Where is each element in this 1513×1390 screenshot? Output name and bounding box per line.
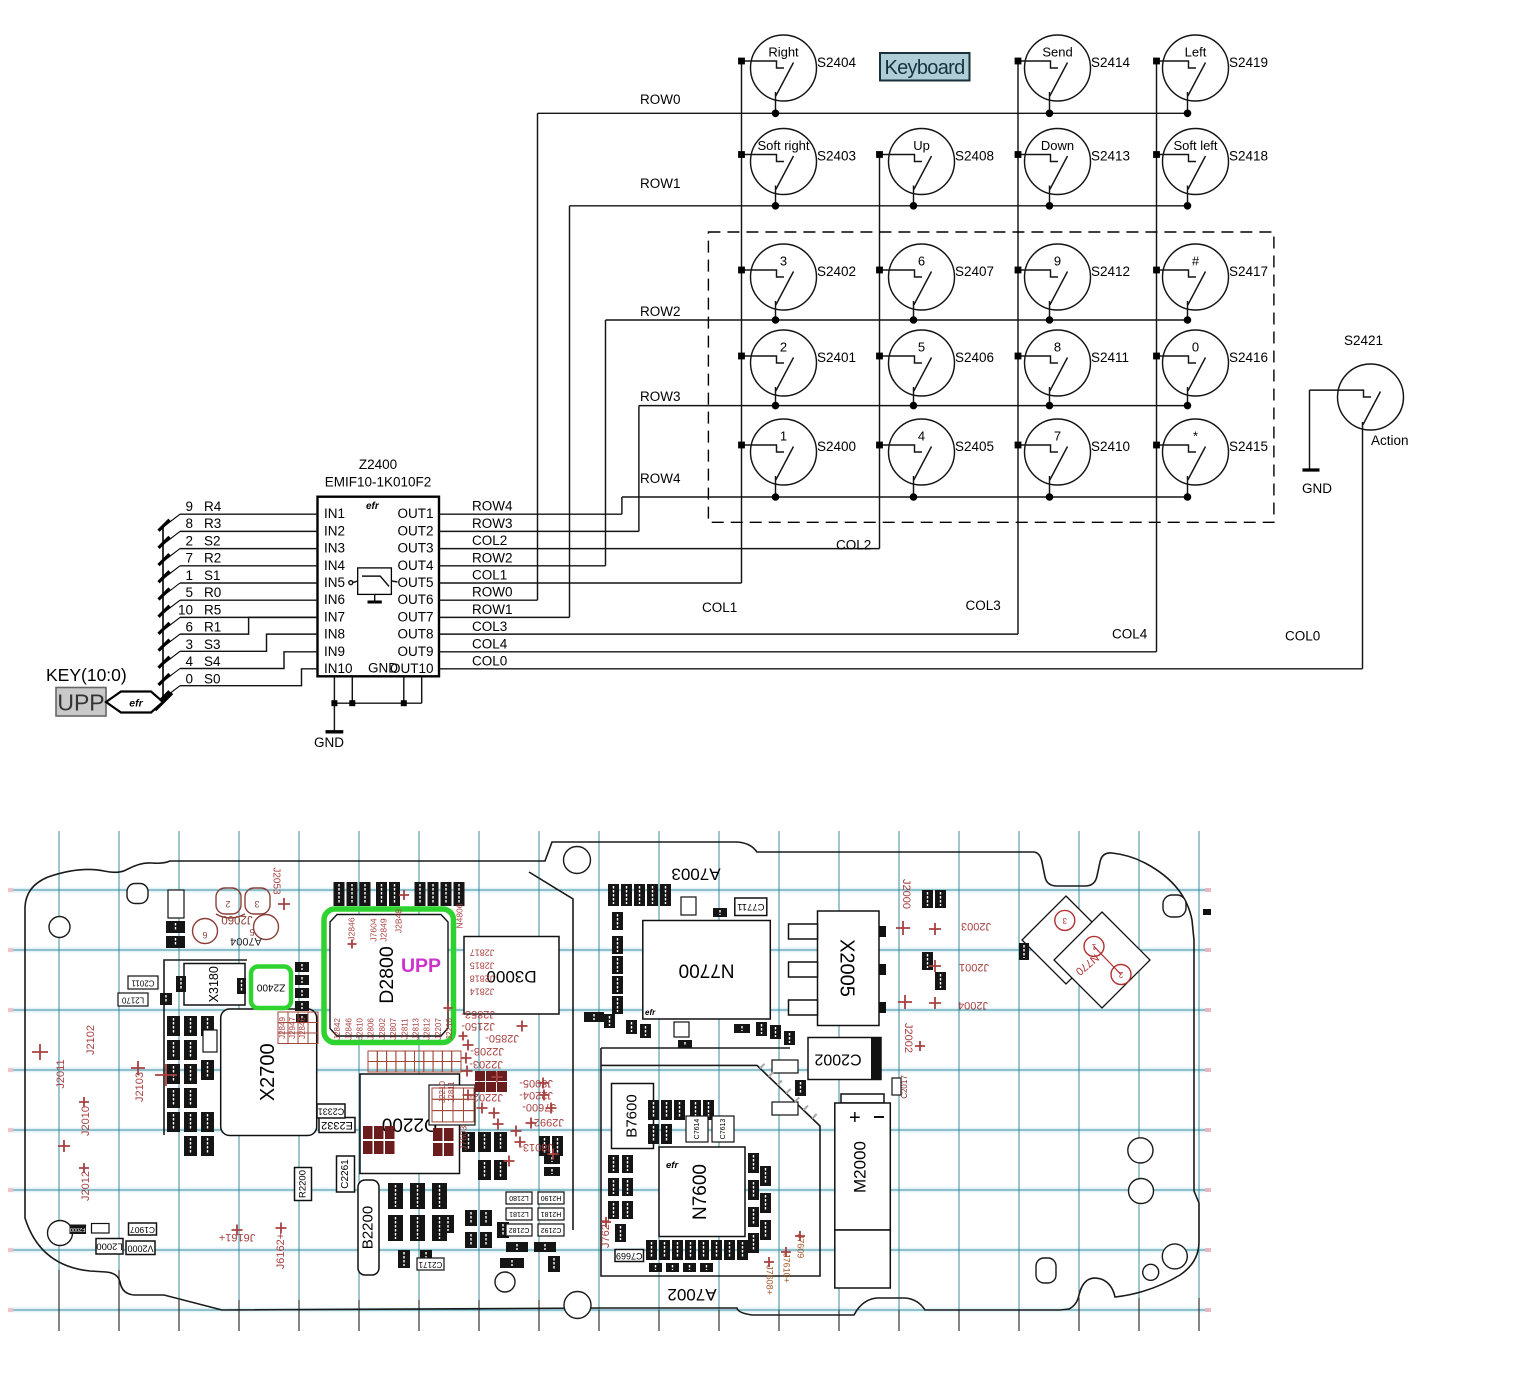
- svg-text:COL2: COL2: [836, 538, 871, 553]
- svg-text:A7003: A7003: [671, 865, 720, 884]
- svg-text:S2407: S2407: [955, 264, 994, 279]
- component B2200: [358, 1180, 379, 1275]
- component C2261: [337, 1156, 355, 1192]
- key switch S2400 (1): [738, 419, 856, 501]
- svg-text:2: 2: [1118, 970, 1123, 979]
- svg-text:1: 1: [780, 429, 787, 444]
- svg-text:J2010: J2010: [80, 1106, 92, 1136]
- wire R4 to IN1: [180, 513, 318, 515]
- svg-text:IN7: IN7: [324, 609, 345, 624]
- component D2800 with green highlight box: [324, 909, 454, 1043]
- svg-text:J6162+: J6162+: [275, 1233, 287, 1269]
- pcb internal boundary near D3000: [529, 872, 573, 1230]
- svg-text:efr: efr: [666, 1160, 679, 1171]
- wire OUT10 to COL0: [439, 668, 1363, 670]
- IC Z2400 EMIF10-1K010F2: [318, 457, 440, 676]
- wire R2 to IN4: [180, 565, 318, 567]
- svg-text:S2402: S2402: [817, 264, 856, 279]
- svg-text:J2842: J2842: [333, 1018, 342, 1040]
- wire S2 to IN3: [180, 548, 318, 550]
- svg-text:J2846: J2846: [298, 1017, 307, 1039]
- rounded hole bottom-right area: [1036, 1258, 1056, 1283]
- key switch S2412 (9): [1015, 244, 1130, 324]
- svg-text:S2401: S2401: [817, 350, 856, 365]
- key switch S2404 (Right): [738, 35, 856, 117]
- component C7669: [615, 1250, 644, 1262]
- wire OUT3 to COL2: [439, 548, 880, 550]
- wire R5 to IN7: [180, 616, 318, 618]
- svg-text:J2814: J2814: [470, 987, 495, 997]
- svg-text:1: 1: [185, 568, 193, 583]
- wire ROW1 vertical riser: [569, 206, 571, 618]
- component D2200: [360, 1074, 460, 1174]
- wire ROW4 horizontal: [622, 496, 1188, 498]
- svg-text:4: 4: [918, 429, 925, 444]
- wire from Action to GND: [1309, 390, 1311, 469]
- svg-text:ROW3: ROW3: [472, 516, 513, 531]
- svg-text:J2811: J2811: [400, 1018, 409, 1040]
- svg-text:N7700: N7700: [679, 960, 735, 981]
- svg-text:J2103: J2103: [134, 1072, 146, 1102]
- svg-text:COL0: COL0: [472, 654, 507, 669]
- svg-text:S2410: S2410: [1091, 439, 1130, 454]
- svg-text:IN6: IN6: [324, 592, 345, 607]
- wire R3 to IN2: [180, 530, 318, 532]
- svg-text:OUT1: OUT1: [397, 506, 433, 521]
- svg-text:M2000: M2000: [850, 1141, 869, 1193]
- svg-text:J2208-: J2208-: [470, 1045, 504, 1057]
- svg-text:GND: GND: [314, 735, 344, 750]
- svg-text:S2403: S2403: [817, 149, 856, 164]
- component cluster right of Z2400: [295, 962, 309, 1023]
- svg-text:9: 9: [1054, 254, 1061, 269]
- wire COL2 vertical: [879, 155, 881, 549]
- svg-text:J7603: J7603: [458, 1126, 468, 1151]
- svg-text:3: 3: [780, 254, 787, 269]
- svg-text:S2417: S2417: [1229, 264, 1268, 279]
- key switch S2421 (Action): [1310, 333, 1409, 448]
- svg-text:J2811: J2811: [447, 1081, 456, 1103]
- key switch S2403 (Soft right): [738, 129, 856, 210]
- svg-text:N4806: N4806: [454, 903, 464, 928]
- svg-text:C2011: C2011: [131, 978, 155, 987]
- svg-text:J2004: J2004: [958, 999, 988, 1011]
- component column left of N7700: [604, 884, 671, 1038]
- component E2332: [319, 1118, 355, 1133]
- svg-text:6: 6: [202, 930, 207, 940]
- svg-text:C2171: C2171: [418, 1260, 442, 1269]
- key switch S2413 (Down): [1015, 129, 1130, 210]
- svg-text:J2813: J2813: [412, 1018, 421, 1040]
- svg-text:6: 6: [185, 620, 193, 635]
- wire OUT8 to COL3: [439, 633, 1018, 635]
- svg-text:S2416: S2416: [1229, 350, 1268, 365]
- svg-text:J2150-: J2150-: [461, 1020, 495, 1032]
- key switch S2414 (Send): [1015, 35, 1131, 117]
- bus ripper tick 1: [163, 531, 180, 544]
- svg-text:COL1: COL1: [702, 600, 737, 615]
- svg-text:R5: R5: [204, 602, 221, 617]
- svg-text:J2060: J2060: [221, 913, 252, 925]
- svg-text:EMIF10-1K010F2: EMIF10-1K010F2: [325, 475, 432, 490]
- svg-text:COL4: COL4: [472, 636, 508, 651]
- svg-text:J2850-: J2850-: [485, 1032, 519, 1044]
- bus ripper tick 0: [163, 514, 180, 527]
- svg-text:8: 8: [185, 516, 193, 531]
- component cluster left of X2700: [167, 1016, 217, 1156]
- component C2002: [808, 1038, 881, 1080]
- wire ROW1 horizontal: [570, 205, 1188, 207]
- svg-text:J2992-: J2992-: [530, 1116, 564, 1128]
- svg-text:9: 9: [185, 499, 193, 514]
- svg-text:J2818: J2818: [470, 974, 495, 984]
- svg-text:OUT9: OUT9: [397, 644, 433, 659]
- bus ripper tick 7: [163, 634, 180, 647]
- red via lattice D7603: [429, 1085, 475, 1125]
- svg-text:B7600: B7600: [623, 1094, 640, 1137]
- svg-text:J2817: J2817: [470, 948, 495, 958]
- svg-text:J2000: J2000: [900, 879, 912, 909]
- svg-text:COL1: COL1: [472, 568, 507, 583]
- svg-text:GND: GND: [368, 661, 398, 676]
- wire OUT6 to ROW0: [439, 599, 538, 601]
- svg-text:Z2400: Z2400: [256, 981, 285, 992]
- svg-text:Send: Send: [1042, 45, 1072, 60]
- wire R1 to IN8 (jogged): [180, 617, 318, 634]
- svg-text:UPP: UPP: [401, 955, 441, 977]
- svg-text:ROW1: ROW1: [472, 602, 513, 617]
- svg-text:OUT7: OUT7: [397, 609, 433, 624]
- svg-text:S3: S3: [204, 637, 221, 652]
- svg-text:J7604: J7604: [368, 918, 378, 941]
- ground net below Z2400: [314, 676, 422, 750]
- components right of X2005: [892, 890, 1029, 1095]
- key switch S2410 (7): [1015, 419, 1130, 501]
- component L2000: [96, 1239, 123, 1255]
- svg-text:3: 3: [254, 899, 259, 909]
- svg-text:R4: R4: [204, 499, 222, 514]
- components near X3180: [118, 976, 246, 1006]
- ground symbol at Action: [1302, 470, 1332, 496]
- svg-text:ROW0: ROW0: [640, 92, 681, 107]
- svg-text:J2207: J2207: [434, 1018, 443, 1040]
- svg-text:S2415: S2415: [1229, 439, 1268, 454]
- hole right 2: [1129, 1179, 1154, 1204]
- key switch S2405 (4): [876, 419, 994, 501]
- svg-text:COL0: COL0: [1285, 629, 1320, 644]
- svg-text:C2192: C2192: [541, 1226, 562, 1233]
- component X3180: [184, 964, 245, 1006]
- svg-text:S2408: S2408: [955, 149, 994, 164]
- svg-text:IN2: IN2: [324, 523, 345, 538]
- component cluster mid keypad: [417, 1132, 560, 1272]
- svg-text:J2849: J2849: [378, 918, 388, 941]
- component V2000: [126, 1241, 155, 1255]
- svg-text:S2413: S2413: [1091, 149, 1130, 164]
- svg-text:ROW1: ROW1: [640, 176, 681, 191]
- svg-text:IN8: IN8: [324, 627, 345, 642]
- wire ROW0 horizontal: [538, 112, 1188, 114]
- svg-text:*: *: [1193, 429, 1198, 444]
- svg-text:0: 0: [1192, 340, 1199, 355]
- svg-text:J2812: J2812: [423, 1018, 432, 1040]
- component X2700: [221, 1009, 317, 1136]
- components below N7700: [584, 897, 750, 1048]
- svg-text:J2846: J2846: [346, 917, 356, 940]
- wire S1 to IN5: [180, 582, 318, 584]
- red via lattice right of X2700: [278, 1012, 318, 1044]
- svg-text:efr: efr: [129, 698, 143, 710]
- key switch S2408 (Up): [876, 129, 994, 210]
- key switch S2407 (6): [876, 244, 994, 324]
- wire OUT1 to ROW4: [439, 513, 622, 515]
- component C2331: [317, 1104, 345, 1118]
- component M2000 battery: [835, 1094, 891, 1288]
- component cluster below D2200 / right of B2200: [388, 1183, 454, 1268]
- svg-text:IN5: IN5: [324, 575, 345, 590]
- svg-text:IN9: IN9: [324, 644, 345, 659]
- svg-text:S2421: S2421: [1344, 333, 1383, 348]
- svg-text:S2414: S2414: [1091, 55, 1131, 70]
- component C1907: [129, 1223, 157, 1235]
- hole right 1: [1128, 1138, 1153, 1163]
- svg-text:OUT4: OUT4: [397, 558, 433, 573]
- rounded hole top-left: [127, 884, 148, 904]
- svg-text:S2405: S2405: [955, 439, 994, 454]
- wire COL3 vertical: [1017, 61, 1019, 634]
- wire S0 to IN11 (jogged): [180, 669, 318, 686]
- svg-text:J2846: J2846: [344, 1018, 353, 1040]
- svg-text:V2000: V2000: [127, 1243, 153, 1253]
- small inductor components L2180/H2190: [506, 1192, 564, 1252]
- wire S3 to IN9 (jogged): [180, 634, 318, 651]
- component N7700: [643, 921, 771, 1020]
- svg-text:L2000: L2000: [96, 1241, 122, 1252]
- svg-text:Up: Up: [913, 138, 930, 153]
- wire COL1 vertical: [741, 61, 743, 583]
- component X2005: [789, 911, 887, 1026]
- mounting hole: [49, 917, 70, 938]
- svg-text:S1: S1: [204, 568, 221, 583]
- svg-text:ROW4: ROW4: [640, 471, 681, 486]
- svg-text:Soft right: Soft right: [757, 138, 809, 153]
- pcb board outline: [25, 842, 1199, 1315]
- hole bottom mid 2: [564, 1292, 591, 1319]
- wire COL0 vertical from Action: [1362, 422, 1364, 669]
- svg-text:ROW2: ROW2: [472, 550, 513, 565]
- key switch S2401 (2): [738, 330, 856, 409]
- svg-text:10: 10: [178, 602, 193, 617]
- svg-text:IN1: IN1: [324, 506, 345, 521]
- svg-text:J2003: J2003: [961, 920, 991, 932]
- svg-text:D2800: D2800: [376, 946, 398, 1004]
- svg-text:X3180: X3180: [207, 966, 221, 1002]
- wire ROW3 vertical riser: [638, 406, 640, 532]
- svg-text:#: #: [1192, 254, 1200, 269]
- wire OUT4 to ROW2: [439, 565, 606, 567]
- svg-text:C7614: C7614: [694, 1119, 701, 1140]
- wire OUT5 to COL1: [439, 582, 742, 584]
- svg-text:C7711: C7711: [737, 901, 764, 912]
- svg-text:ROW4: ROW4: [472, 499, 513, 514]
- component cluster far left top: [166, 890, 185, 948]
- svg-text:J2B48: J2B48: [393, 909, 403, 933]
- svg-text:OUT6: OUT6: [397, 592, 433, 607]
- svg-text:R2200: R2200: [298, 1170, 309, 1198]
- highlight box Z2400 (green): [251, 967, 291, 1009]
- component cluster above D2800: [334, 882, 465, 906]
- key switch S2419 (Left): [1153, 35, 1268, 117]
- svg-text:B2200: B2200: [359, 1206, 376, 1249]
- svg-text:ROW2: ROW2: [640, 304, 681, 319]
- svg-text:J7610+: J7610+: [782, 1253, 792, 1283]
- svg-text:S2419: S2419: [1229, 55, 1268, 70]
- wire ROW4 vertical riser: [621, 497, 623, 514]
- svg-text:5: 5: [185, 585, 193, 600]
- svg-text:A7002: A7002: [667, 1285, 716, 1304]
- svg-text:6: 6: [918, 254, 925, 269]
- svg-text:COL4: COL4: [1112, 627, 1148, 642]
- svg-text:OUT2: OUT2: [397, 523, 433, 538]
- svg-text:J2210: J2210: [445, 1018, 454, 1040]
- component cluster right of N7600: [748, 1022, 806, 1253]
- svg-text:ROW3: ROW3: [640, 389, 681, 404]
- svg-text:S2404: S2404: [817, 55, 857, 70]
- wire ROW0 vertical riser: [537, 113, 539, 600]
- component R2200: [295, 1168, 312, 1201]
- svg-text:J2202-: J2202-: [469, 1091, 503, 1103]
- svg-text:L2181: L2181: [509, 1210, 529, 1217]
- component C7711: [735, 898, 767, 916]
- svg-text:J2203-: J2203-: [469, 1058, 503, 1070]
- svg-text:Soft left: Soft left: [1173, 138, 1217, 153]
- component cluster right of D2200 black: [539, 1136, 563, 1176]
- svg-text:IN4: IN4: [324, 558, 346, 573]
- bus ripper tick 6: [163, 617, 180, 630]
- svg-text:R0: R0: [204, 585, 221, 600]
- svg-text:UPP: UPP: [57, 690, 104, 716]
- svg-text:IN10: IN10: [324, 661, 353, 676]
- svg-text:J2807: J2807: [389, 1018, 398, 1040]
- svg-text:COL2: COL2: [472, 533, 507, 548]
- red via lattice below D2800: [368, 1051, 461, 1072]
- svg-text:J2001: J2001: [959, 961, 989, 973]
- svg-text:1: 1: [1091, 942, 1096, 951]
- svg-text:J2002: J2002: [902, 1023, 914, 1053]
- svg-text:3: 3: [1062, 916, 1067, 925]
- svg-text:+: +: [849, 1107, 861, 1129]
- key switch S2411 (8): [1015, 330, 1129, 409]
- svg-text:C2017: C2017: [900, 1075, 909, 1099]
- key switch S2406 (5): [876, 330, 994, 409]
- component N7600: [659, 1147, 745, 1237]
- hole corner: [1162, 1244, 1187, 1269]
- dashed numeric keypad outline: [708, 232, 1274, 522]
- svg-text:J2947: J2947: [288, 1017, 297, 1039]
- svg-text:IN3: IN3: [324, 541, 345, 556]
- svg-text:Left: Left: [1185, 45, 1207, 60]
- svg-text:L2170: L2170: [121, 995, 144, 1004]
- svg-text:efr: efr: [645, 1008, 656, 1017]
- wire COL4 vertical: [1156, 61, 1158, 652]
- svg-text:J2102: J2102: [85, 1025, 97, 1055]
- pcb internal boundary around N7600 module: [601, 1048, 820, 1276]
- svg-text:R2: R2: [204, 551, 221, 566]
- svg-text:R1: R1: [204, 620, 221, 635]
- svg-text:S0: S0: [204, 671, 221, 686]
- svg-text:S2411: S2411: [1091, 350, 1129, 365]
- svg-text:C7669: C7669: [616, 1251, 643, 1261]
- svg-text:efr: efr: [366, 501, 380, 512]
- key switch S2415 (*): [1153, 419, 1268, 501]
- svg-text:Down: Down: [1041, 138, 1074, 153]
- svg-text:N7600: N7600: [690, 1164, 711, 1220]
- key switch S2416 (0): [1153, 330, 1268, 409]
- svg-text:J2210: J2210: [438, 1081, 447, 1103]
- svg-text:8: 8: [1054, 340, 1061, 355]
- block UPP: [56, 688, 106, 717]
- svg-text:E2332: E2332: [321, 1119, 353, 1131]
- bus connector hexagon efr: [106, 692, 163, 713]
- hatch ticks on diagonal boundary: [760, 1064, 817, 1119]
- svg-text:C2261: C2261: [340, 1159, 351, 1189]
- wire OUT9 to COL4: [439, 651, 1157, 653]
- svg-text:Keyboard: Keyboard: [884, 57, 964, 79]
- svg-text:S2412: S2412: [1091, 264, 1130, 279]
- svg-text:J2853-: J2853-: [461, 1008, 495, 1020]
- component cluster above N7600: [608, 1100, 734, 1242]
- key switch S2402 (3): [738, 244, 856, 324]
- wire ROW2 horizontal: [606, 319, 1188, 321]
- svg-text:C7613: C7613: [720, 1119, 727, 1140]
- hole bottom mid: [495, 1272, 515, 1292]
- svg-text:J7608+: J7608+: [765, 1265, 775, 1295]
- bus ripper tick 4: [163, 583, 180, 596]
- hole top: [564, 847, 591, 874]
- key switch S2417 (#): [1153, 244, 1268, 324]
- key switch S2418 (Soft left): [1153, 129, 1268, 210]
- svg-text:Action: Action: [1371, 433, 1409, 448]
- wire OUT7 to ROW1: [439, 616, 570, 618]
- svg-text:X2005: X2005: [836, 939, 858, 997]
- svg-text:COL3: COL3: [472, 619, 507, 634]
- svg-text:J2806: J2806: [367, 1018, 376, 1040]
- svg-text:C2002: C2002: [814, 1050, 861, 1067]
- svg-text:J2815: J2815: [470, 961, 495, 971]
- svg-text:GND: GND: [1302, 481, 1332, 496]
- dark red pad blocks inside D2200: [363, 1126, 454, 1156]
- component N770 assembly: [1022, 896, 1150, 1008]
- svg-text:5: 5: [918, 340, 925, 355]
- pcb grid: [8, 831, 1205, 1331]
- svg-text:Z2400: Z2400: [359, 457, 397, 472]
- dark red pad block cluster J2202: [475, 1071, 507, 1092]
- svg-text:7: 7: [1054, 429, 1061, 444]
- component row below N7600: [646, 1240, 748, 1272]
- pcb internal boundary left of X3180: [164, 960, 247, 1135]
- svg-text:J2849: J2849: [278, 1017, 287, 1039]
- svg-text:7: 7: [185, 551, 193, 566]
- bus ripper tick 2: [163, 549, 180, 562]
- hole small corner: [1143, 1264, 1159, 1280]
- svg-text:J2012: J2012: [80, 1171, 92, 1201]
- svg-text:3: 3: [185, 637, 193, 652]
- svg-text:OUT5: OUT5: [397, 575, 433, 590]
- bus ripper tick 5: [163, 600, 180, 613]
- bus ripper tick 10: [163, 686, 180, 699]
- svg-text:C2182: C2182: [509, 1226, 530, 1233]
- svg-text:S2400: S2400: [817, 439, 856, 454]
